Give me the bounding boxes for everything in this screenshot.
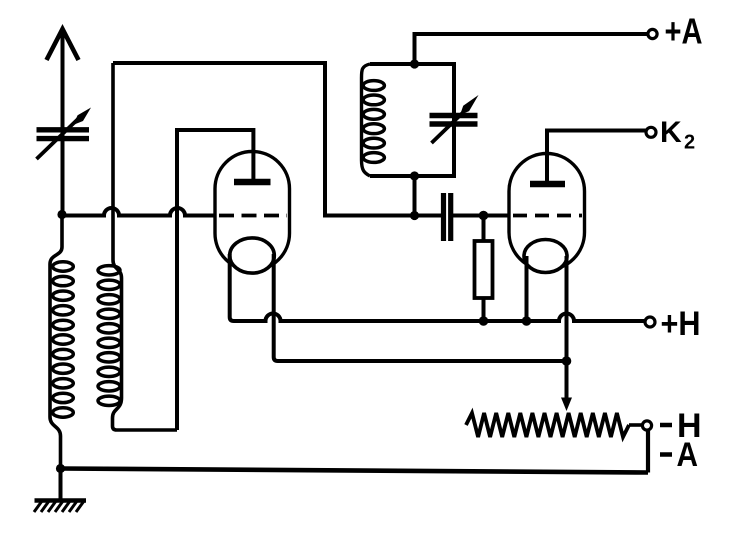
coil L2 (grid coil) top lead, spine, bottom lead: [113, 63, 178, 430]
terminal +H circle: [645, 317, 655, 327]
terminal -H circle: [642, 421, 651, 430]
node A (junction antenna/L1/grid wire): [57, 210, 66, 219]
antenna: [47, 29, 79, 214]
tank circuit rectangle: [370, 64, 454, 176]
svg-text:2: 2: [684, 132, 695, 154]
wire: V2 cathode left leg: [525, 256, 529, 321]
ground junction node: [56, 464, 65, 473]
coil L3 loops: [363, 81, 384, 91]
tank top tap wire to +A: [415, 34, 649, 64]
node: tank top junction: [410, 59, 419, 68]
tube V1 cathode circle: [230, 238, 275, 273]
wire: V1 cathode left leg + +H bus with hops: [230, 254, 645, 321]
svg-text:+A: +A: [665, 11, 703, 52]
wire: V1 cathode right leg to wire2: [274, 254, 567, 361]
tube V1 anode wire to L2 bottom: [177, 130, 253, 430]
svg-text:K: K: [660, 116, 682, 149]
coil L1 (antenna coil) lead+spine: [50, 214, 62, 469]
terminal K2 circle: [646, 127, 656, 137]
node: grid-leak bottom junction: [479, 316, 489, 326]
svg-text:+H: +H: [661, 305, 701, 343]
capacitor C3 (coupling) plates: [444, 193, 451, 241]
wire: tank bottom tap down to grid wire: [413, 176, 417, 216]
coil L3 (tank coil) lead/spine: [362, 64, 371, 176]
wire: -H terminal down to -A bus: [646, 430, 650, 473]
tube V1 grid (dashed): [219, 214, 287, 218]
variable capacitor C2 (tank trimmer): [430, 95, 479, 143]
label -H: [660, 423, 672, 428]
node: wire2 / wiper junction: [562, 356, 572, 366]
wire: L2 top to tank bottom (top route): [113, 63, 441, 216]
node: tank tap on grid wire: [410, 211, 419, 220]
svg-text:A: A: [677, 436, 699, 474]
node: grid-leak top junction: [479, 211, 489, 221]
rheostat R2 zigzag: [466, 413, 629, 437]
tube V2 anode bar: [530, 181, 565, 188]
ground: [34, 469, 86, 513]
wire: V2 cathode right leg down to rheostat wiper: [565, 256, 569, 399]
resistor R1 (grid leak): [475, 216, 493, 322]
variable capacitor C1 (antenna trimmer): [37, 108, 92, 160]
tube V2 envelope: [509, 154, 585, 271]
wire: bottom -A bus from ground node to -H terminal drop: [61, 469, 649, 473]
tube V2 cathode circle: [524, 240, 567, 273]
coil L2 loops: [98, 266, 120, 275]
label -A: [660, 452, 672, 457]
terminal +A circle: [648, 29, 657, 38]
tube V1 anode bar: [234, 179, 271, 186]
coil L1 loops: [53, 262, 74, 271]
tube V1 envelope: [215, 152, 290, 271]
wire: node A to V1 grid, hops over L2 lead and anode lead: [62, 208, 216, 215]
node: V2 left leg on +H bus: [522, 316, 532, 326]
wire: C3 to V2 grid: [453, 214, 516, 218]
node: tank bottom junction: [410, 171, 419, 180]
tube V2 grid (dashed): [513, 214, 582, 218]
tube V2 anode wire to K2: [547, 131, 646, 185]
wiper arrow head: [561, 398, 572, 412]
wire: rheostat to -H terminal: [629, 423, 643, 427]
